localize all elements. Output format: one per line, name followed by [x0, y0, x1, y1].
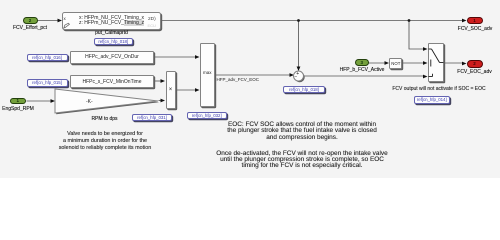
svg-text:-K-: -K-	[86, 99, 93, 105]
svg-text:−: −	[294, 75, 297, 81]
